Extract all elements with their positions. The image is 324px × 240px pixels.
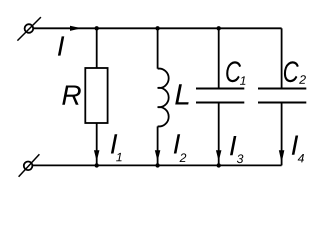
wire C2 branch top: [281, 28, 283, 88]
label C2: [284, 61, 299, 82]
node A (top junction R): [95, 26, 99, 30]
arrow current I: [70, 26, 82, 31]
terminal T1 (top-left input): [17, 17, 41, 40]
label I: [58, 36, 64, 55]
wire L branch top: [157, 28, 159, 68]
arrow current I4: [279, 150, 285, 163]
arrow current I3: [216, 150, 222, 161]
inductor L: [158, 69, 169, 127]
capacitor C2: [258, 89, 306, 103]
resistor R: [85, 68, 107, 123]
label I3: [230, 136, 236, 155]
node F (bottom junction C1): [217, 163, 221, 167]
label I2: [174, 134, 180, 153]
label C1: [226, 61, 241, 82]
arrow current I2: [155, 150, 161, 161]
node B (top junction L): [155, 26, 159, 30]
label L: [175, 84, 188, 104]
node C (top junction C1): [217, 26, 221, 30]
label I1: [111, 134, 117, 153]
capacitor C1: [196, 89, 244, 103]
label R: [62, 85, 81, 104]
wire R branch bottom: [96, 123, 98, 165]
terminal T2 (bottom-left input): [19, 154, 40, 177]
node E (bottom junction L): [155, 163, 159, 167]
wire C2 branch bottom: [281, 103, 283, 166]
wire L branch bottom: [157, 126, 159, 165]
node D (bottom junction R): [95, 163, 99, 167]
arrow current I1: [94, 150, 100, 161]
wire top rail: [33, 27, 281, 29]
wire R branch top: [96, 28, 98, 68]
wire C1 branch bottom: [218, 103, 220, 166]
wire C1 branch top: [218, 28, 220, 88]
wire bottom rail: [33, 164, 282, 166]
label I4: [292, 136, 298, 155]
